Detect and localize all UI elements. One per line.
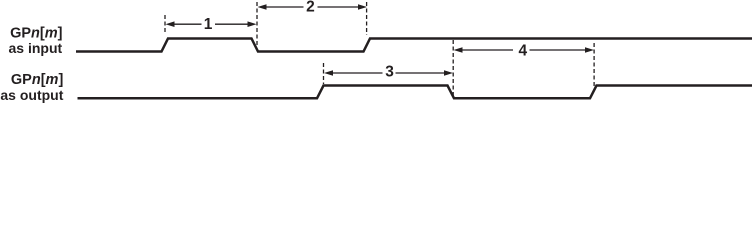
wire: output waveform trace xyxy=(78,86,753,99)
node D: dashed reference line at output rising edge 1 xyxy=(323,63,325,84)
dimension arrow 2 (input low time) xyxy=(258,0,368,16)
svg-text:1: 1 xyxy=(204,16,213,33)
node C: dashed reference line at input rising edge 2 xyxy=(366,2,368,35)
node E: dashed reference line at output falling edge xyxy=(452,40,454,96)
dimension arrow 1 (input pulse width) xyxy=(166,16,257,33)
node B: dashed reference line at input falling edge xyxy=(256,2,258,46)
svg-text:GPn[m]: GPn[m] xyxy=(11,72,64,88)
label: GPn[m] as input xyxy=(9,25,63,56)
node A: dashed reference line at input rising edge 1 xyxy=(164,15,166,35)
label: GPn[m] as output xyxy=(0,72,63,103)
svg-text:as input: as input xyxy=(9,40,63,56)
svg-text:2: 2 xyxy=(306,0,315,16)
svg-text:3: 3 xyxy=(385,64,394,81)
svg-text:as output: as output xyxy=(0,87,63,103)
dimension arrow 4 (output low time) xyxy=(454,43,595,60)
dimension arrow 3 (output pulse width) xyxy=(324,64,453,81)
svg-text:GPn[m]: GPn[m] xyxy=(10,25,63,41)
node F: dashed reference line at output rising edge 2 xyxy=(593,43,595,89)
wire: input waveform trace xyxy=(76,39,752,52)
svg-text:4: 4 xyxy=(518,43,527,60)
